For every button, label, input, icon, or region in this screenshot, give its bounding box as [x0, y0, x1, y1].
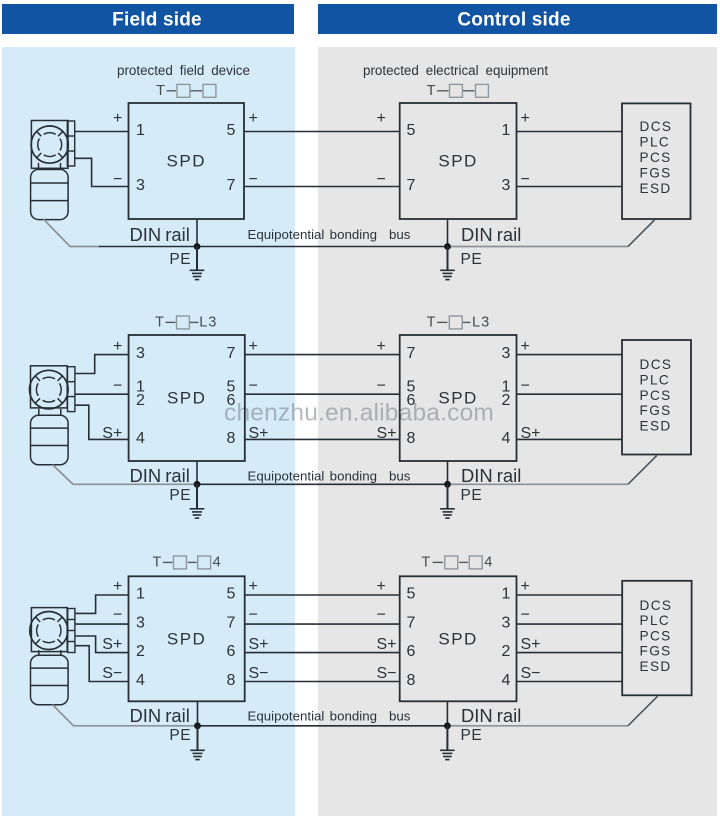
- wire S+ SPD-A to SPD-B: [245, 438, 400, 440]
- equipotential bonding bus (between PE nodes): [198, 725, 448, 727]
- svg-text:T: T: [155, 314, 164, 330]
- svg-text:S+: S+: [377, 425, 397, 442]
- svg-text:−: −: [249, 378, 258, 395]
- SPD U1B (control side): [400, 103, 517, 219]
- svg-text:−: −: [113, 378, 122, 395]
- svg-text:−: −: [113, 171, 122, 188]
- wire − SPD-B to DCS: [517, 393, 623, 395]
- svg-text:7: 7: [407, 345, 416, 362]
- junction PE node (field) #2: [194, 481, 201, 488]
- type label T-code (field): [152, 554, 221, 570]
- svg-text:SPD: SPD: [167, 389, 206, 408]
- svg-text:−: −: [521, 607, 530, 624]
- svg-text:S+: S+: [521, 425, 541, 442]
- svg-text:T: T: [156, 83, 165, 99]
- wire S− SPD-A to SPD-B: [245, 681, 400, 683]
- equipotential bonding bus (left dark segment): [99, 246, 197, 248]
- transmitter TX1: [31, 121, 75, 220]
- svg-text:3: 3: [136, 177, 145, 194]
- wire transmitter to SPD (field) #2: [75, 623, 129, 625]
- wire bus to DCS cabinet (diagonal): [628, 220, 655, 247]
- svg-text:PE: PE: [169, 727, 191, 744]
- equipotential bonding bus (gray segment to DCS): [448, 246, 629, 248]
- svg-text:+: +: [377, 578, 386, 595]
- svg-text:+: +: [521, 338, 530, 355]
- field side header bar: [2, 4, 294, 34]
- svg-text:S−: S−: [102, 665, 122, 682]
- svg-text:ESD: ESD: [640, 418, 672, 433]
- svg-text:5: 5: [227, 586, 236, 603]
- svg-text:−: −: [377, 607, 386, 624]
- svg-text:5: 5: [227, 122, 236, 139]
- equipotential bonding bus (between PE nodes): [197, 483, 448, 485]
- svg-text:S+: S+: [102, 636, 122, 653]
- svg-text:protected electrical equipment: protected electrical equipment: [363, 63, 548, 78]
- junction PE node (field) #1: [194, 243, 201, 250]
- svg-text:PE: PE: [169, 487, 191, 504]
- equipotential bonding bus (between PE nodes): [197, 246, 448, 248]
- svg-text:4: 4: [484, 554, 493, 570]
- wire transmitter to SPD (field) #3: [75, 405, 129, 439]
- field side panel: [2, 47, 295, 816]
- svg-text:L3: L3: [199, 314, 217, 330]
- wire − SPD-A to SPD-B: [244, 186, 400, 188]
- svg-text:PE: PE: [461, 487, 483, 504]
- svg-text:−: −: [249, 607, 258, 624]
- svg-text:Equipotential bonding bus: Equipotential bonding bus: [248, 709, 411, 724]
- svg-text:2: 2: [502, 392, 511, 409]
- svg-text:SPD: SPD: [167, 152, 206, 171]
- svg-text:DCS: DCS: [640, 357, 673, 372]
- svg-text:T: T: [152, 554, 161, 570]
- svg-text:SPD: SPD: [438, 152, 477, 171]
- svg-text:PCS: PCS: [640, 628, 672, 643]
- ground PE (field) #3: [190, 726, 205, 760]
- svg-text:T: T: [427, 83, 436, 99]
- transmitter TX3: [30, 608, 75, 705]
- wire S+ SPD-A to SPD-B: [245, 652, 400, 654]
- svg-text:7: 7: [407, 615, 416, 632]
- wire SPD-A to PE bus: [196, 219, 198, 247]
- svg-text:PLC: PLC: [640, 613, 671, 628]
- svg-text:6: 6: [227, 392, 236, 409]
- svg-text:3: 3: [136, 615, 145, 632]
- svg-text:SPD: SPD: [438, 389, 477, 408]
- wire − SPD-B to DCS: [517, 623, 623, 625]
- svg-text:+: +: [377, 338, 386, 355]
- junction PE node (field) #3: [194, 722, 201, 729]
- svg-text:S−: S−: [249, 665, 269, 682]
- svg-text:2: 2: [502, 643, 511, 660]
- svg-text:+: +: [249, 338, 258, 355]
- svg-text:3: 3: [502, 615, 511, 632]
- svg-text:PE: PE: [461, 727, 483, 744]
- svg-text:4: 4: [213, 554, 222, 570]
- svg-text:−: −: [377, 171, 386, 188]
- svg-text:DCS: DCS: [640, 119, 673, 134]
- wire transmitter to SPD (field) #4: [75, 646, 129, 682]
- wire + SPD-B to DCS: [517, 354, 623, 356]
- svg-text:4: 4: [502, 672, 511, 689]
- svg-text:S+: S+: [521, 636, 541, 653]
- svg-text:6: 6: [407, 643, 416, 660]
- svg-text:+: +: [113, 110, 122, 127]
- svg-text:5: 5: [407, 122, 416, 139]
- SPD U3B (control side): [400, 576, 517, 701]
- svg-text:DIN rail: DIN rail: [461, 224, 521, 245]
- svg-text:+: +: [249, 578, 258, 595]
- wire S+ SPD-B to DCS: [517, 438, 623, 440]
- svg-text:PCS: PCS: [640, 388, 672, 403]
- svg-text:FGS: FGS: [640, 166, 672, 181]
- equipotential bonding bus (gray segment to DCS): [447, 725, 628, 727]
- svg-text:6: 6: [407, 392, 416, 409]
- svg-text:8: 8: [227, 672, 236, 689]
- ground PE (control) #1: [440, 247, 455, 280]
- svg-text:6: 6: [227, 643, 236, 660]
- svg-text:+: +: [113, 578, 122, 595]
- wire transmitter to SPD (field) #2: [75, 158, 129, 186]
- svg-text:+: +: [521, 110, 530, 127]
- svg-text:1: 1: [502, 586, 511, 603]
- svg-text:PE: PE: [169, 251, 191, 268]
- ground PE (control) #2: [440, 484, 455, 518]
- svg-text:8: 8: [407, 430, 416, 447]
- controller box DCS/PLC/PCS/FGS/ESD #1: [622, 103, 691, 219]
- svg-text:L3: L3: [472, 314, 490, 330]
- transmitter TX2: [30, 366, 75, 465]
- svg-text:S+: S+: [377, 636, 397, 653]
- svg-text:8: 8: [227, 430, 236, 447]
- svg-text:5: 5: [407, 586, 416, 603]
- junction PE node (control) #2: [444, 481, 451, 488]
- equipotential bonding bus (gray segment to DCS): [448, 483, 629, 485]
- wire transmitter case to PE bus (diagonal): [53, 465, 198, 485]
- type label T-code (control): [427, 83, 489, 99]
- svg-text:ESD: ESD: [640, 181, 672, 196]
- wire SPD-B to PE bus: [447, 461, 449, 484]
- wire SPD-A to PE bus: [197, 701, 199, 726]
- svg-text:SPD: SPD: [438, 629, 477, 648]
- svg-text:SPD: SPD: [167, 629, 206, 648]
- svg-text:DIN rail: DIN rail: [130, 465, 190, 486]
- type label T-code (field): [155, 314, 217, 330]
- svg-text:7: 7: [227, 615, 236, 632]
- svg-text:3: 3: [136, 345, 145, 362]
- control side panel: [318, 47, 717, 816]
- wire SPD-A to PE bus: [196, 461, 198, 484]
- svg-text:S−: S−: [377, 665, 397, 682]
- SPD U2B (control side): [400, 335, 517, 461]
- wire transmitter case to PE bus (diagonal): [44, 219, 101, 246]
- svg-text:−: −: [113, 607, 122, 624]
- wire + SPD-B to DCS: [517, 131, 623, 133]
- svg-text:FGS: FGS: [640, 644, 672, 659]
- junction PE node (control) #3: [444, 722, 451, 729]
- svg-text:2: 2: [136, 392, 145, 409]
- svg-text:T: T: [421, 554, 430, 570]
- svg-text:7: 7: [227, 177, 236, 194]
- wire − SPD-A to SPD-B: [245, 393, 400, 395]
- wire SPD-B to PE bus: [447, 219, 449, 247]
- svg-text:−: −: [521, 378, 530, 395]
- wire − SPD-B to DCS: [517, 186, 623, 188]
- svg-text:Equipotential bonding bus: Equipotential bonding bus: [248, 227, 411, 242]
- wire + SPD-B to DCS: [517, 594, 623, 596]
- SPD U3A (field side): [129, 576, 245, 701]
- svg-text:S+: S+: [249, 425, 269, 442]
- svg-text:+: +: [521, 578, 530, 595]
- type label T-code (field): [156, 83, 216, 99]
- wire + SPD-A to SPD-B: [244, 131, 400, 133]
- svg-text:1: 1: [136, 586, 145, 603]
- svg-text:+: +: [113, 338, 122, 355]
- svg-text:Field side: Field side: [112, 10, 202, 31]
- controller box DCS/PLC/PCS/FGS/ESD #2: [622, 340, 691, 455]
- wire transmitter to SPD (field) #1: [75, 131, 129, 133]
- svg-text:1: 1: [502, 122, 511, 139]
- type label T-code (control): [421, 554, 493, 570]
- svg-text:T: T: [427, 314, 436, 330]
- svg-text:−: −: [377, 378, 386, 395]
- SPD U1A (field side): [129, 103, 245, 219]
- controller box DCS/PLC/PCS/FGS/ESD #3: [622, 581, 691, 696]
- svg-text:3: 3: [502, 345, 511, 362]
- svg-text:4: 4: [502, 430, 511, 447]
- svg-text:FGS: FGS: [640, 403, 672, 418]
- svg-text:PCS: PCS: [640, 150, 672, 165]
- svg-text:PLC: PLC: [640, 135, 671, 150]
- svg-text:DIN rail: DIN rail: [461, 465, 521, 486]
- svg-text:2: 2: [136, 643, 145, 660]
- svg-text:+: +: [249, 110, 258, 127]
- svg-text:7: 7: [227, 345, 236, 362]
- control side header bar: [318, 4, 717, 34]
- type label T-code (control): [427, 314, 491, 330]
- svg-text:DCS: DCS: [640, 598, 673, 613]
- wire transmitter to SPD (field) #2: [75, 393, 129, 395]
- svg-text:4: 4: [136, 430, 145, 447]
- ground PE (control) #3: [440, 726, 455, 760]
- svg-text:DIN rail: DIN rail: [130, 224, 190, 245]
- svg-text:−: −: [249, 171, 258, 188]
- wire S− SPD-B to DCS: [517, 681, 623, 683]
- wire transmitter to SPD (field) #1: [75, 355, 129, 374]
- junction PE node (control) #1: [444, 243, 451, 250]
- wire bus to DCS cabinet (diagonal): [628, 456, 657, 485]
- svg-text:DIN rail: DIN rail: [130, 705, 190, 726]
- svg-text:protected field device: protected field device: [117, 63, 250, 78]
- svg-text:PE: PE: [461, 251, 483, 268]
- wire transmitter to SPD (field) #3: [75, 636, 129, 653]
- wire transmitter case to PE bus (diagonal): [53, 705, 198, 726]
- svg-text:−: −: [521, 171, 530, 188]
- svg-text:Equipotential bonding bus: Equipotential bonding bus: [248, 468, 411, 483]
- svg-text:3: 3: [502, 177, 511, 194]
- wire transmitter to SPD (field) #1: [75, 595, 129, 613]
- wire + SPD-A to SPD-B: [245, 354, 400, 356]
- svg-text:S−: S−: [521, 665, 541, 682]
- wire SPD-B to PE bus: [446, 701, 448, 726]
- ground PE (field) #1: [190, 247, 205, 280]
- svg-text:Control side: Control side: [457, 10, 570, 31]
- wire + SPD-A to SPD-B: [245, 594, 400, 596]
- SPD U2A (field side): [129, 335, 245, 461]
- svg-text:S+: S+: [102, 425, 122, 442]
- svg-text:S+: S+: [249, 636, 269, 653]
- wire S+ SPD-B to DCS: [517, 652, 623, 654]
- svg-text:7: 7: [407, 177, 416, 194]
- svg-text:4: 4: [136, 672, 145, 689]
- ground PE (field) #2: [190, 484, 205, 518]
- wire − SPD-A to SPD-B: [245, 623, 400, 625]
- svg-text:ESD: ESD: [640, 659, 672, 674]
- svg-text:+: +: [377, 110, 386, 127]
- wire bus to DCS cabinet (diagonal): [628, 696, 658, 726]
- svg-text:8: 8: [407, 672, 416, 689]
- svg-text:PLC: PLC: [640, 373, 671, 388]
- svg-text:DIN rail: DIN rail: [461, 705, 521, 726]
- svg-text:1: 1: [136, 122, 145, 139]
